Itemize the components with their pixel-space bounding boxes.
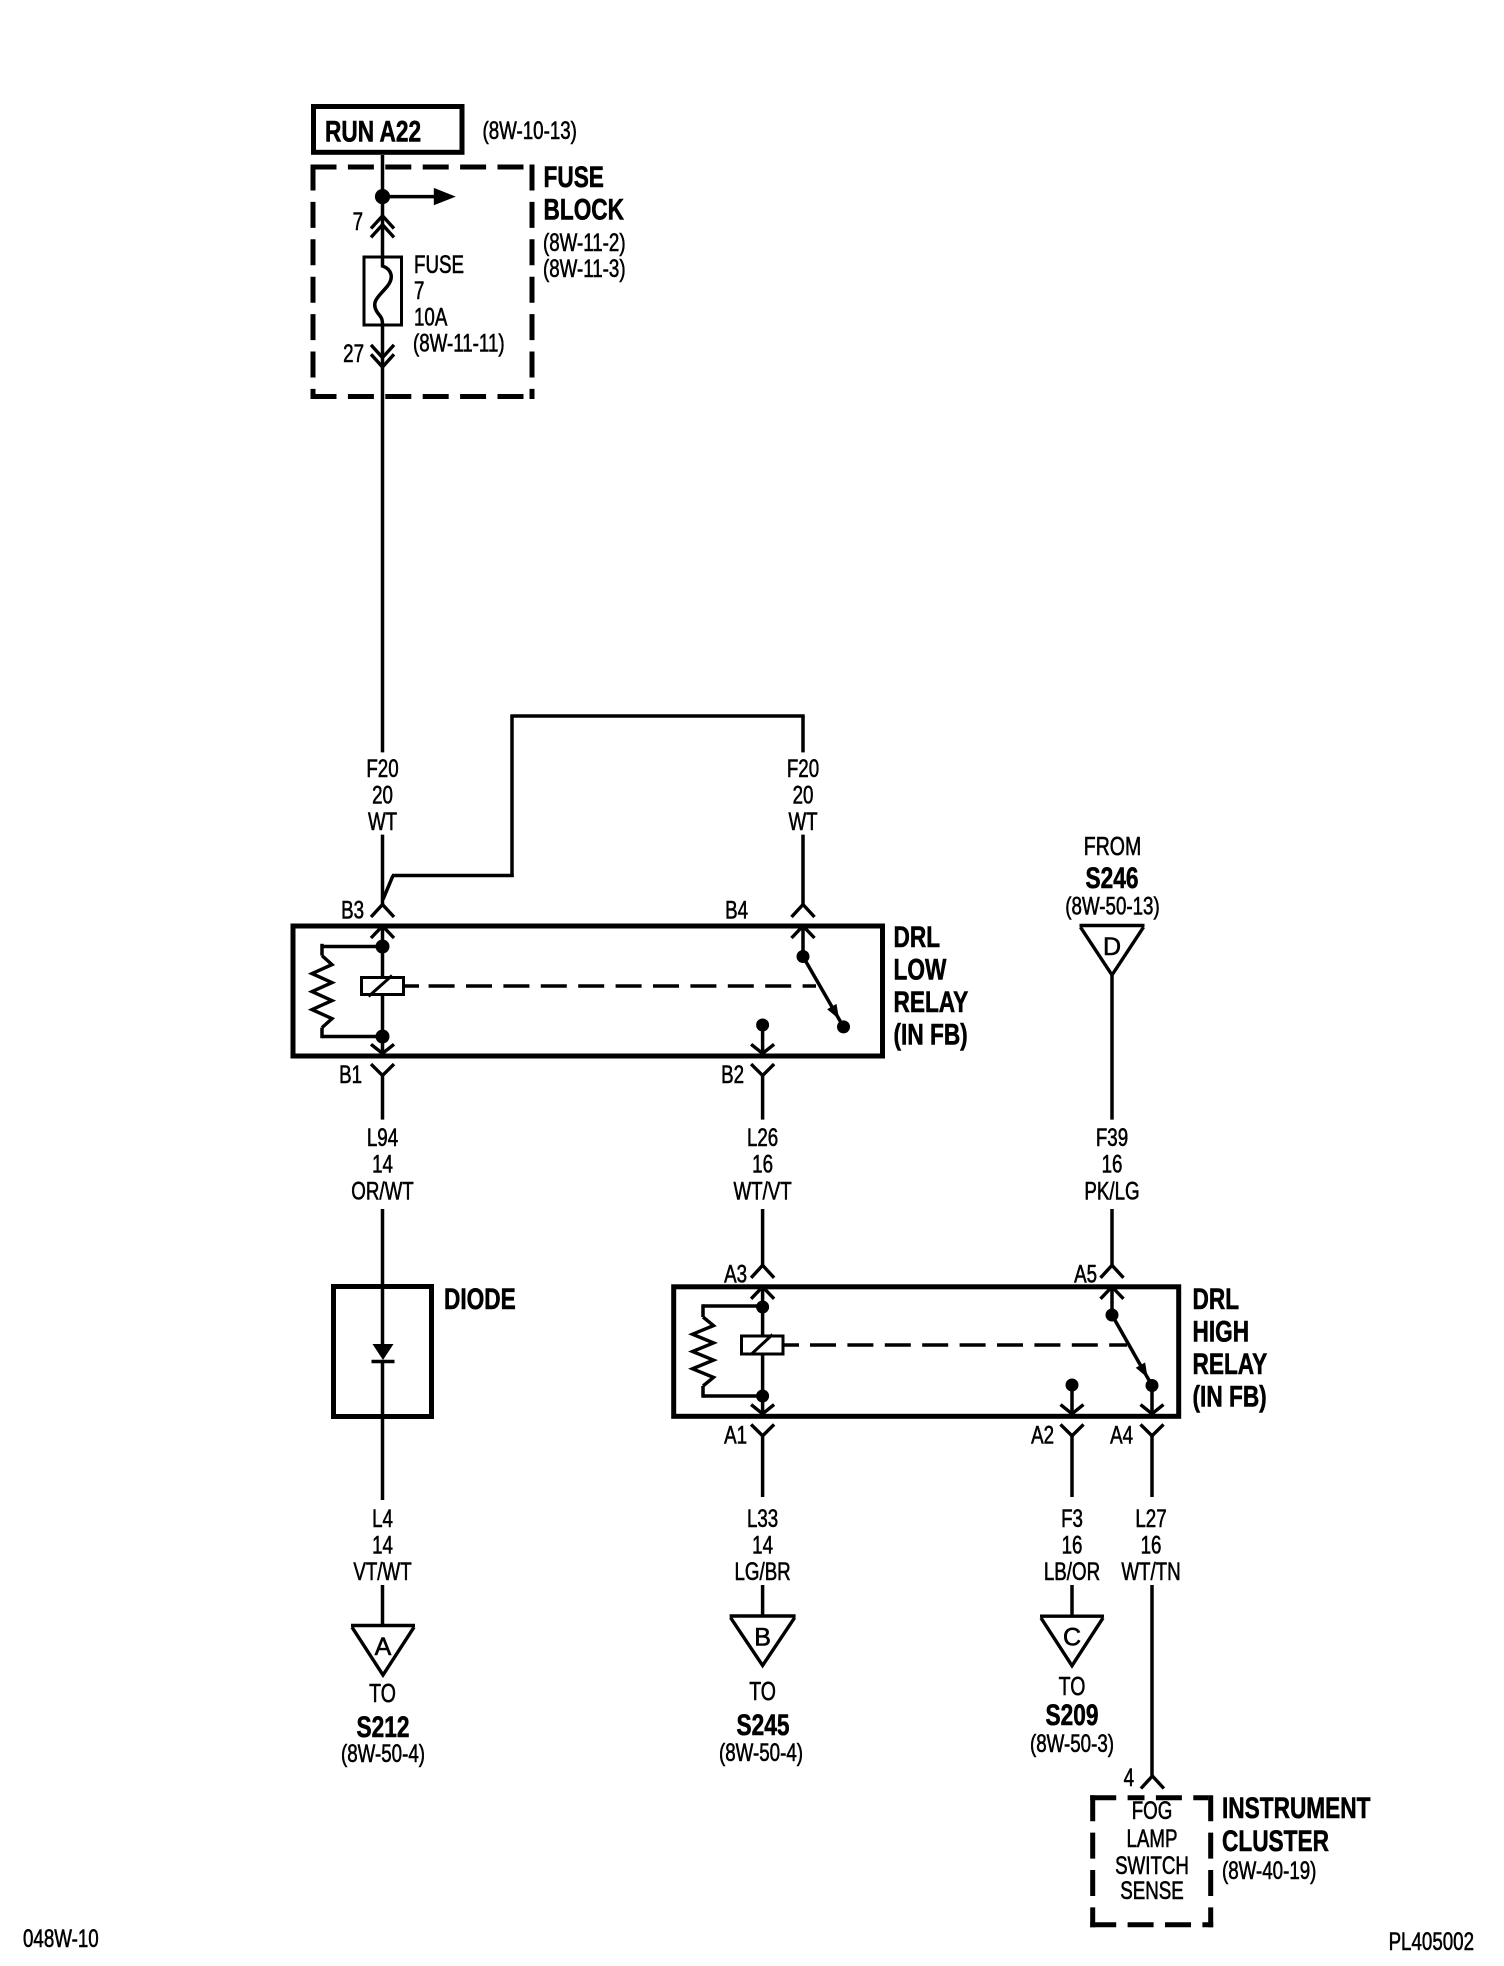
switch end dot high relay	[1146, 1379, 1159, 1392]
wire coil to A1	[761, 1353, 765, 1397]
svg-text:FUSE: FUSE	[414, 250, 464, 278]
svg-text:RELAY: RELAY	[1193, 1347, 1268, 1381]
pin A5 connector	[1101, 1265, 1124, 1278]
switch blade high relay	[1112, 1315, 1152, 1386]
switch contact dot B4	[797, 950, 810, 963]
svg-text:SENSE: SENSE	[1120, 1876, 1184, 1904]
svg-text:(IN FB): (IN FB)	[894, 1017, 968, 1051]
svg-text:F3: F3	[1061, 1504, 1083, 1532]
pin B2 connector	[751, 1044, 774, 1053]
svg-text:A1: A1	[724, 1421, 747, 1449]
svg-text:L4: L4	[372, 1504, 393, 1532]
svg-text:16: 16	[752, 1150, 773, 1178]
svg-text:WT/TN: WT/TN	[1121, 1557, 1180, 1585]
wire fuse to B3	[381, 325, 385, 752]
svg-text:10A: 10A	[414, 303, 448, 331]
branch arrow to other circuits	[383, 195, 437, 199]
svg-text:S209: S209	[1046, 1698, 1099, 1732]
wire coil top to resistor	[322, 945, 383, 949]
wire L27 to instrument cluster	[1150, 1585, 1154, 1776]
svg-text:TO: TO	[1059, 1671, 1086, 1700]
svg-text:14: 14	[372, 1150, 393, 1178]
wire coil top to resistor high	[703, 1304, 763, 1308]
svg-text:(8W-40-19): (8W-40-19)	[1222, 1856, 1316, 1884]
svg-text:INSTRUMENT: INSTRUMENT	[1222, 1791, 1370, 1825]
svg-text:L94: L94	[367, 1123, 398, 1151]
svg-text:A: A	[375, 1633, 392, 1661]
svg-text:16: 16	[1062, 1531, 1083, 1559]
svg-text:(8W-50-4): (8W-50-4)	[341, 1739, 425, 1767]
svg-text:L26: L26	[747, 1123, 778, 1151]
wire junction to coil box	[381, 947, 385, 978]
svg-text:B: B	[754, 1624, 771, 1652]
svg-text:CLUSTER: CLUSTER	[1222, 1824, 1329, 1858]
svg-text:D: D	[1103, 933, 1121, 961]
svg-text:20: 20	[372, 781, 393, 809]
wire L4 to triangle A	[381, 1585, 385, 1626]
relay coil high	[742, 1336, 784, 1354]
wire branch horizontal lower	[392, 874, 514, 878]
svg-text:WT/VT: WT/VT	[733, 1177, 791, 1205]
wire branch diagonal at B3	[383, 876, 393, 900]
pin B1 connector	[371, 1044, 394, 1053]
svg-text:DIODE: DIODE	[444, 1282, 516, 1316]
svg-text:LAMP: LAMP	[1126, 1824, 1177, 1852]
relay box DRL LOW RELAY	[293, 926, 883, 1056]
junction dot B3 coil top	[376, 940, 390, 954]
svg-text:A4: A4	[1110, 1421, 1133, 1449]
pin 27 connector chevrons	[371, 345, 394, 358]
svg-text:B4: B4	[725, 896, 748, 924]
svg-text:TO: TO	[369, 1678, 396, 1707]
wire resistor bottom to junction high	[703, 1394, 763, 1398]
svg-text:F20: F20	[787, 754, 819, 782]
wire F39 to relay A5	[1110, 1209, 1114, 1266]
pin A3 connector	[751, 1265, 774, 1278]
svg-text:7: 7	[414, 276, 424, 304]
svg-text:WT: WT	[368, 808, 397, 836]
svg-text:16: 16	[1141, 1531, 1162, 1559]
instrument cluster dashed box	[1090, 1795, 1095, 1927]
junction dot B1 coil bottom	[376, 1030, 390, 1044]
svg-text:LOW: LOW	[894, 952, 948, 986]
svg-text:FOG: FOG	[1132, 1796, 1173, 1824]
svg-text:LB/OR: LB/OR	[1044, 1557, 1100, 1585]
svg-text:(8W-10-13): (8W-10-13)	[483, 116, 577, 144]
svg-text:A2: A2	[1031, 1421, 1054, 1449]
fuse 7 10A symbol	[364, 257, 402, 325]
switch contact dot A5	[1106, 1309, 1119, 1322]
svg-text:(IN FB): (IN FB)	[1193, 1379, 1267, 1413]
svg-text:14: 14	[372, 1531, 393, 1559]
diode box	[334, 1287, 432, 1417]
svg-text:OR/WT: OR/WT	[351, 1177, 413, 1205]
connector triangle B to S245	[730, 1614, 796, 1617]
diode D1 symbol	[373, 1344, 394, 1360]
junction dot in fuse block	[375, 189, 390, 204]
wire branch down to B4	[801, 716, 805, 752]
svg-text:RUN A22: RUN A22	[325, 114, 421, 148]
pin A1 connector	[751, 1405, 774, 1414]
svg-text:PK/LG: PK/LG	[1084, 1177, 1139, 1205]
connector triangle C to S209	[1040, 1614, 1104, 1617]
svg-text:A3: A3	[724, 1260, 747, 1288]
svg-text:L27: L27	[1135, 1504, 1166, 1532]
junction dot A3 coil top	[756, 1301, 769, 1314]
connector triangle D from S246	[1080, 924, 1145, 927]
connector box RUN A22	[314, 107, 463, 153]
connector triangle A to S212	[351, 1624, 415, 1627]
wire L33 to triangle B	[761, 1585, 765, 1617]
svg-text:PL405002: PL405002	[1389, 1927, 1474, 1955]
svg-text:27: 27	[343, 339, 364, 367]
pin B3 connector	[371, 905, 394, 918]
svg-text:C: C	[1063, 1624, 1081, 1652]
relay box DRL HIGH RELAY	[674, 1287, 1179, 1417]
svg-text:S246: S246	[1086, 861, 1139, 895]
svg-text:HIGH: HIGH	[1193, 1314, 1250, 1348]
svg-text:(8W-50-3): (8W-50-3)	[1030, 1729, 1114, 1757]
svg-text:S245: S245	[737, 1708, 790, 1742]
wire diode to L4 label	[381, 1362, 385, 1501]
switch contact dot A2	[1066, 1379, 1079, 1392]
svg-text:A5: A5	[1074, 1260, 1097, 1288]
pin 7 connector chevrons	[371, 216, 394, 229]
svg-text:(8W-11-11): (8W-11-11)	[413, 329, 505, 357]
wire RUN A22 to fuse	[381, 155, 385, 257]
svg-text:B2: B2	[721, 1060, 744, 1088]
pin A2 connector	[1061, 1405, 1084, 1414]
wire resuming to relay B4	[801, 835, 805, 906]
wire B2 to relay A3	[761, 1209, 765, 1266]
wire coil to B1	[381, 995, 385, 1037]
svg-text:B3: B3	[341, 896, 364, 924]
svg-text:VT/WT: VT/WT	[353, 1557, 411, 1585]
coil actuation dashed link high	[783, 1343, 799, 1347]
svg-text:7: 7	[353, 207, 363, 235]
wire D to F39 label	[1110, 974, 1114, 1120]
svg-text:20: 20	[793, 781, 814, 809]
wire B1 to diode	[381, 1209, 385, 1344]
switch end dot low relay	[837, 1020, 850, 1033]
svg-text:(8W-11-2): (8W-11-2)	[543, 228, 626, 256]
pin 4 connector at instrument cluster	[1141, 1776, 1164, 1789]
junction dot A1 coil bottom	[756, 1390, 769, 1403]
svg-text:DRL: DRL	[1193, 1282, 1240, 1316]
wire F3 to triangle C	[1070, 1585, 1074, 1618]
svg-text:F39: F39	[1096, 1123, 1128, 1151]
coil actuation dashed link low	[404, 984, 420, 988]
svg-text:FUSE: FUSE	[544, 160, 604, 194]
svg-text:WT: WT	[788, 808, 817, 836]
svg-text:B1: B1	[339, 1060, 362, 1088]
relay coil low	[362, 978, 404, 995]
switch blade low relay	[803, 957, 844, 1027]
svg-text:16: 16	[1102, 1150, 1123, 1178]
wire resistor bottom to junction	[322, 1035, 383, 1039]
svg-text:048W-10: 048W-10	[23, 1924, 99, 1952]
svg-text:FROM: FROM	[1084, 831, 1141, 860]
svg-text:LG/BR: LG/BR	[734, 1557, 790, 1585]
wire resuming to relay B3	[381, 835, 385, 906]
svg-text:4: 4	[1124, 1763, 1134, 1791]
svg-text:BLOCK: BLOCK	[544, 192, 625, 226]
svg-text:L33: L33	[747, 1504, 778, 1532]
wire branch horizontal upper	[510, 714, 804, 718]
svg-text:(8W-50-4): (8W-50-4)	[719, 1738, 803, 1766]
svg-text:RELAY: RELAY	[894, 985, 969, 1019]
svg-text:(8W-11-3): (8W-11-3)	[543, 254, 626, 282]
svg-text:TO: TO	[749, 1676, 776, 1705]
svg-text:DRL: DRL	[894, 920, 941, 954]
resistor low relay coil	[312, 956, 332, 1028]
fuse block dashed outline	[311, 165, 316, 400]
pin B4 connector	[792, 905, 815, 918]
pin A4 connector	[1141, 1405, 1164, 1414]
wire branch vertical riser	[510, 716, 514, 877]
wire junction to coil box high	[761, 1307, 765, 1337]
resistor high relay coil	[693, 1317, 714, 1386]
svg-text:14: 14	[752, 1531, 773, 1559]
switch contact dot B2	[756, 1019, 769, 1032]
svg-text:F20: F20	[366, 754, 398, 782]
svg-text:(8W-50-13): (8W-50-13)	[1065, 892, 1159, 920]
